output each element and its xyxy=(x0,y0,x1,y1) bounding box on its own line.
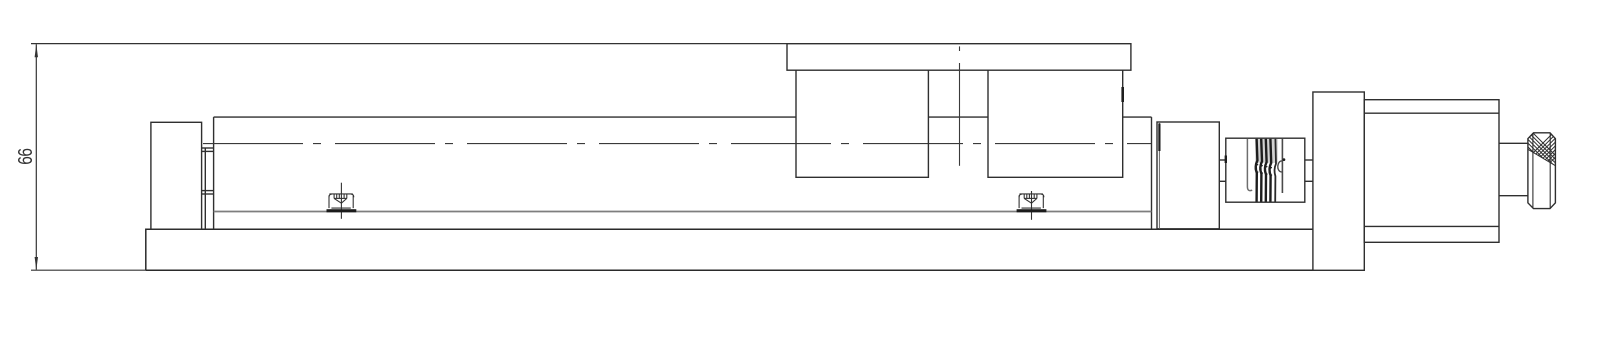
svg-text:66: 66 xyxy=(14,148,37,165)
